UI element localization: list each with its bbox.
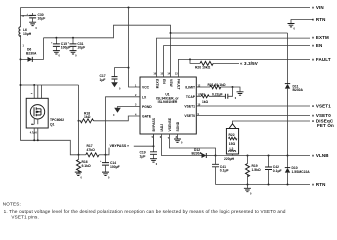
svg-text:« VLNB: « VLNB: [312, 153, 330, 158]
wire feedback vertical: [78, 85, 80, 155]
svg-text:0.22μF: 0.22μF: [212, 92, 223, 96]
node FAULT pull-up junction: [189, 58, 191, 60]
node C42 bottom: [268, 184, 270, 186]
wire VSENSE pin to output node: [170, 134, 216, 156]
svg-text:B230A: B230A: [192, 152, 203, 156]
svg-text:1.5kΩ: 1.5kΩ: [252, 168, 262, 172]
wire DiSEqC control: [229, 121, 310, 129]
resistor R19: [246, 156, 262, 185]
terminal 3.3/5V: [240, 61, 258, 66]
wire drain line: [21, 84, 79, 86]
svg-text:VBYPASS »: VBYPASS »: [110, 144, 130, 148]
svg-text:VSET1 pins.: VSET1 pins.: [11, 214, 39, 219]
pin 13 FAULT: [175, 73, 181, 90]
inductor L6: [19, 15, 32, 47]
diode D10 TVS: [285, 156, 310, 185]
svg-text:1. The output voltage level fo: 1. The output voltage level for the desi…: [4, 209, 286, 214]
svg-text:PGND: PGND: [142, 105, 152, 109]
terminal EN: [312, 43, 323, 48]
svg-text:« RTN: « RTN: [312, 182, 326, 187]
terminal EXTM: [312, 35, 329, 40]
terminal VLNB: [312, 153, 330, 158]
terminal VSET1: [312, 104, 331, 109]
svg-text:VSW: VSW: [169, 79, 173, 87]
ground ILIMIT: [235, 92, 244, 100]
node divider junction: [78, 154, 80, 156]
svg-text:FAULT: FAULT: [177, 79, 181, 90]
node ground tap bottom rail: [247, 184, 249, 186]
svg-text:FET On: FET On: [317, 123, 334, 128]
terminal DiSEqC FET On: [312, 119, 334, 128]
svg-text:VSET0: VSET0: [184, 114, 195, 118]
ground SGND: [174, 139, 183, 145]
pin 8 SGND: [176, 121, 180, 139]
svg-text:« VSET0: « VSET0: [312, 113, 331, 118]
svg-text:10μH: 10μH: [23, 32, 32, 36]
resistor R17: [79, 144, 106, 157]
diode D11: [285, 84, 304, 93]
wire VSET0 pin to terminal: [196, 115, 310, 117]
svg-text:100μF: 100μF: [110, 165, 120, 169]
ground under C30: [29, 22, 37, 30]
svg-text:R22: R22: [229, 133, 235, 137]
node D10 top: [287, 155, 289, 157]
ground under C17: [111, 82, 121, 90]
diode D12: [192, 148, 216, 158]
wire VSET1 pin to terminal: [196, 105, 310, 107]
capacitor C23 TCAP network: [196, 87, 232, 104]
ground bottom rail: [244, 185, 252, 196]
pin 6 IADJ: [160, 124, 164, 139]
svg-text:1μF: 1μF: [100, 78, 106, 82]
svg-text:ISL9491NER: ISL9491NER: [158, 100, 178, 104]
terminal VIN: [312, 5, 324, 10]
ground at RTN stub: [288, 24, 296, 31]
svg-text:0.1μF: 0.1μF: [273, 169, 282, 173]
wire GATE pin to R18: [94, 116, 141, 121]
node C14 junction: [105, 154, 107, 156]
node C15 tap: [55, 37, 57, 39]
pin 1 VCC: [135, 84, 150, 89]
svg-text:1μF: 1μF: [140, 154, 146, 158]
wire boost output rail to EXTM/VSW staircase: [44, 25, 288, 38]
capacitor C15: [51, 38, 70, 51]
svg-text:R20 10kΩ: R20 10kΩ: [195, 66, 211, 70]
svg-text:VSET1: VSET1: [184, 105, 195, 109]
node C17 tap: [128, 67, 130, 69]
inductor L2 with resistor R22: [224, 129, 239, 162]
wire FAULT pin to terminal: [179, 59, 311, 77]
terminal RTN: [312, 182, 326, 187]
node drain left: [20, 84, 22, 86]
svg-text:4.7μH: 4.7μH: [30, 131, 37, 134]
terminal RTN top stub: [291, 17, 326, 23]
node VSW junction: [170, 32, 172, 34]
pin 9 VSET0: [184, 113, 199, 118]
node C42 top: [268, 155, 270, 157]
transistor Q1: [26, 85, 64, 140]
terminal VSET0: [312, 113, 331, 118]
svg-text:100μF: 100μF: [61, 46, 71, 50]
svg-text:TCAP: TCAP: [186, 95, 196, 99]
resistor R18: [79, 111, 94, 122]
svg-text:« FAULT: « FAULT: [312, 57, 331, 62]
op-amp U1 ISL9491ER regulator IC body: [140, 77, 196, 134]
pin 10 VSET1: [184, 103, 200, 108]
capacitor C17: [100, 68, 129, 83]
svg-text:1kΩ: 1kΩ: [202, 100, 209, 104]
node C31 tap: [72, 37, 74, 39]
pin 11 TCAP: [186, 94, 201, 99]
wire EN pin to terminal: [164, 46, 311, 77]
pin 7 VSENSE: [168, 117, 172, 140]
svg-text:B230A: B230A: [293, 88, 304, 92]
svg-text:« EXTM: « EXTM: [312, 35, 329, 40]
node VIN junction: [128, 7, 130, 9]
ground under C14: [102, 172, 110, 179]
wire SGND pin to ground: [177, 134, 179, 139]
net label VBYPASS: [106, 144, 130, 155]
svg-text:Q1: Q1: [50, 123, 55, 127]
svg-text:IADJ: IADJ: [160, 124, 164, 132]
node output sense junction: [215, 155, 217, 157]
svg-text:« VSET1: « VSET1: [312, 104, 331, 109]
svg-text:VSENSE: VSENSE: [168, 117, 172, 131]
svg-text:« RTN: « RTN: [312, 17, 326, 22]
pin 3 PGND: [135, 104, 152, 109]
notes text: [3, 202, 286, 220]
svg-text:10μF: 10μF: [77, 46, 85, 50]
svg-text:47kΩ: 47kΩ: [87, 148, 96, 152]
capacitor C41: [212, 156, 229, 185]
svg-text:EXTM: EXTM: [155, 79, 159, 89]
wire left rail: [21, 8, 79, 155]
node Q1 source right: [37, 139, 39, 141]
svg-text:SGND: SGND: [176, 121, 180, 131]
node Q1 source left: [33, 139, 35, 141]
wire IADJ pin to D12: [162, 134, 202, 156]
svg-text:BYPASS: BYPASS: [152, 117, 156, 131]
svg-text:« EN: « EN: [312, 43, 323, 48]
wire VIN top rail: [21, 7, 311, 9]
svg-text:GATE: GATE: [142, 115, 152, 119]
svg-text:220μH: 220μH: [224, 157, 235, 161]
wire RTN bottom rail: [216, 184, 311, 186]
node R19 top: [247, 155, 249, 157]
node Q1 drain tap: [33, 84, 35, 86]
node ILIMIT junction: [232, 86, 234, 88]
svg-text:R21 91.1kΩ: R21 91.1kΩ: [208, 83, 226, 87]
svg-text:9.1kΩ: 9.1kΩ: [82, 164, 92, 168]
wire PGND pin: [118, 107, 141, 108]
resistor R16: [77, 155, 92, 173]
svg-text:TPC6062: TPC6062: [50, 118, 64, 122]
capacitor C42: [265, 156, 282, 185]
capacitor C14: [100, 155, 120, 172]
wire LX pin to C14 node: [106, 97, 141, 155]
svg-text:« 3.3/5V: « 3.3/5V: [240, 61, 258, 66]
svg-text:B230A: B230A: [26, 52, 37, 56]
pin 16 EXTM: [153, 73, 158, 89]
ground under C19: [150, 159, 158, 166]
svg-text:EN: EN: [162, 79, 166, 84]
pin 4 GATE: [135, 113, 152, 118]
wire VBYPASS stub to BYPASS pin: [134, 134, 154, 146]
pin 15 EN: [160, 73, 166, 85]
node R18 to feedback vertical: [78, 120, 80, 122]
ground under C31: [70, 51, 78, 58]
wire to ILIMIT ground: [233, 87, 241, 92]
svg-text:NOTES:: NOTES:: [3, 202, 21, 207]
wire EXTM pin to terminal: [157, 38, 311, 77]
pin 12 ILIMIT: [185, 84, 201, 89]
capacitor C19: [140, 146, 158, 159]
svg-text:10μF: 10μF: [38, 17, 46, 21]
ground under C15: [53, 51, 61, 58]
capacitor C31: [68, 38, 86, 51]
ground under R16: [75, 172, 83, 179]
svg-text:ILIMIT: ILIMIT: [185, 86, 195, 90]
svg-text:« VIN: « VIN: [312, 5, 324, 10]
svg-text:15Ω: 15Ω: [229, 142, 236, 146]
wire VIN to VCC drop: [129, 8, 141, 88]
svg-text:VCC: VCC: [142, 86, 150, 90]
pin 5 BYPASS: [152, 117, 156, 139]
wire VSW pin: [170, 33, 172, 77]
node D10 bottom: [287, 184, 289, 186]
svg-text:C23: C23: [200, 93, 205, 96]
wire VSW to D11 vertical: [287, 33, 289, 156]
pin 14 VSW: [167, 73, 173, 88]
resistor R21: [196, 83, 232, 89]
svg-text:0.1μF: 0.1μF: [220, 169, 229, 173]
resistor R20: [190, 59, 239, 69]
wire BYPASS pin stub: [153, 134, 155, 146]
diode D6: [20, 38, 44, 62]
ground PGND: [113, 108, 121, 117]
terminal FAULT: [312, 57, 331, 62]
capacitor C30: [21, 13, 46, 22]
pin 2 LX: [135, 94, 147, 99]
wire VLNB rail: [216, 155, 311, 157]
svg-text:1kΩ: 1kΩ: [84, 115, 91, 119]
svg-text:1.5SMC22A: 1.5SMC22A: [292, 170, 311, 174]
node C19 junction: [153, 145, 155, 147]
